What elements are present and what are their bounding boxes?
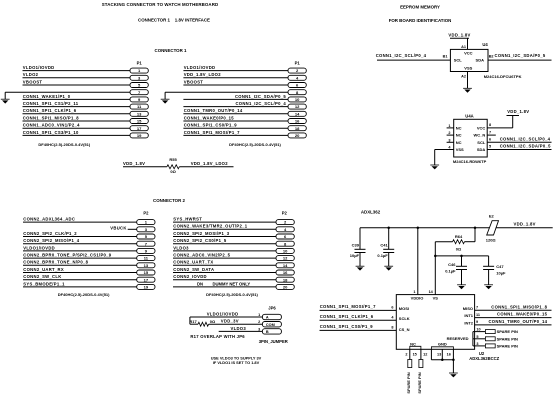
U4A pin 1 (NC) stub: [447, 127, 454, 129]
svg-text:VDD_3V: VDD_3V: [221, 318, 239, 323]
svg-text:CONN2_SPI2_MOSI/P1_3: CONN2_SPI2_MOSI/P1_3: [173, 231, 229, 236]
wire net CONN1_SPI1_CS3/P1_10 to P1 (connector 1, odd pins) pin 19: [23, 134, 131, 136]
capacitor C39: [359, 228, 361, 250]
power bar VDD_1.8V for U4A: [507, 115, 520, 117]
svg-text:SYS_HWRST: SYS_HWRST: [173, 217, 202, 222]
svg-text:2: 2: [258, 320, 260, 324]
svg-text:CONN1_WAKE0/P0_15: CONN1_WAKE0/P0_15: [497, 312, 548, 317]
wire net CONN1_SPI1_CS0/P1_9 to P1 (connector 1, even pins) pin 18: [183, 127, 288, 129]
U4A pin 6 (SCL) wire to net CONN1_I2C_SCL/P0_4: [487, 141, 551, 143]
svg-text:DF40HC(2.5)-20DS-0.4V(51): DF40HC(2.5)-20DS-0.4V(51): [229, 142, 281, 147]
svg-text:R17 OVERLAP WITH JP6: R17 OVERLAP WITH JP6: [190, 334, 245, 339]
svg-text:VLDO3: VLDO3: [173, 245, 189, 250]
resistor R55: [167, 165, 179, 169]
wire net CONN2_UART_RX to P2 (connector 2, odd pins) pin 15: [23, 272, 137, 274]
svg-text:10: 10: [283, 248, 288, 253]
svg-text:VLDO1/IOVDD: VLDO1/IOVDD: [184, 65, 216, 70]
wire net CONN1_SPI1_MISO/P1_8 to P1 (connector 1, odd pins) pin 15: [23, 120, 131, 122]
svg-text:5: 5: [476, 335, 478, 339]
svg-text:CONN2_BPR0_TONE_N/P0_8: CONN2_BPR0_TONE_N/P0_8: [23, 260, 88, 265]
svg-text:0Ω: 0Ω: [170, 169, 176, 174]
connector P2 (connector 2, even pins) pin 16: [276, 270, 294, 275]
svg-text:15: 15: [413, 353, 417, 357]
svg-text:19: 19: [137, 133, 142, 138]
svg-text:13: 13: [437, 353, 441, 357]
svg-text:0Ω: 0Ω: [210, 319, 216, 324]
connector P2 (connector 2, odd pins) pin 3: [137, 227, 155, 232]
ground symbol below C46: [457, 284, 466, 286]
wire net CONN1_ADC0_VIN1/P2_4 to P1 (connector 1, odd pins) pin 17: [23, 127, 131, 129]
connector P1 (connector 1, odd pins) pin 19: [130, 133, 148, 138]
svg-text:CONN2_BPR0_TONE_P/SPI2_CS1/P0_: CONN2_BPR0_TONE_P/SPI2_CS1/P0_9: [23, 253, 111, 258]
capacitor C47: [488, 256, 490, 266]
svg-text:10: 10: [476, 328, 480, 332]
svg-text:CONN1_SPI1_CS0/P1_9: CONN1_SPI1_CS0/P1_9: [184, 123, 238, 128]
svg-text:8: 8: [489, 123, 491, 127]
svg-text:20: 20: [295, 133, 300, 138]
wire net CONN2_BPR0_TONE_N/P0_8 to P2 (connector 2, odd pins) pin 13: [23, 264, 137, 266]
wire net CONN1_I2C_SCL/P0_4 to P1 (connector 1, even pins) pin 12: [183, 106, 288, 108]
svg-text:NC: NC: [456, 133, 462, 138]
svg-text:U4A: U4A: [465, 113, 473, 118]
svg-text:VLDO3: VLDO3: [231, 326, 247, 331]
svg-text:CONN2_ADC0_VIN2/P2_5: CONN2_ADC0_VIN2/P2_5: [173, 253, 230, 258]
svg-text:CONN1_I2C_SCL/P0_4: CONN1_I2C_SCL/P0_4: [376, 53, 427, 58]
connector P1 (connector 1, odd pins) pin 1: [130, 68, 148, 73]
svg-text:VLDO1/IOVDD: VLDO1/IOVDD: [23, 65, 55, 70]
wire ground bus below U2: [431, 359, 453, 361]
wire GND bracket inside U2 (pins 12,13,16): [431, 347, 453, 350]
svg-text:15: 15: [137, 119, 142, 124]
junction at C46: [460, 255, 463, 258]
wire net VLDO1/IOVDD to P2 (connector 2, odd pins) pin 9: [23, 250, 137, 252]
svg-text:C41: C41: [380, 243, 388, 248]
wire U4 pin A2 (VSS) to ground: [467, 72, 469, 89]
wire net VLDO2 to P1 (connector 1, odd pins) pin 3: [23, 77, 131, 79]
U4A pin 8 (VCC) wire to VDD_1.8V: [487, 127, 513, 129]
svg-text:120Ω: 120Ω: [486, 237, 497, 242]
svg-text:P1: P1: [295, 61, 301, 66]
wire net CONN2_WAKE3/TMR2_OUT/P2_1 to P2 (connector 2, even pins) pin 4: [173, 228, 276, 230]
svg-text:CONN1_SPI1_CS1/P2_11: CONN1_SPI1_CS1/P2_11: [23, 101, 79, 106]
svg-text:P2: P2: [282, 211, 288, 216]
svg-text:CONN2_UART_RX: CONN2_UART_RX: [23, 267, 64, 272]
connector P2 (connector 2, odd pins) pin 19: [137, 284, 155, 289]
svg-text:DF40HC(2.5)-20DS-0.4V(51): DF40HC(2.5)-20DS-0.4V(51): [58, 292, 110, 297]
wire net DN (dummy net) to P2 (connector 2, even pins) pin 20: [173, 286, 276, 288]
wire net CONN1_WAKE1/P1_0 to P1 (connector 1, odd pins) pin 9: [23, 98, 131, 100]
svg-text:MOSI: MOSI: [399, 306, 409, 311]
svg-text:SCL: SCL: [477, 140, 486, 145]
svg-text:A1: A1: [461, 45, 466, 49]
ground symbol below U2: [449, 372, 458, 374]
svg-text:CONN1_SPI1_CLK/P1_6: CONN1_SPI1_CLK/P1_6: [320, 314, 374, 319]
svg-text:VDD_1.8V_LDO2: VDD_1.8V_LDO2: [184, 72, 222, 77]
connector P1 (connector 1, odd pins) pin 13: [130, 111, 148, 116]
wire to ground below U2: [452, 360, 454, 373]
connector P1 (connector 1, odd pins) pin 11: [130, 104, 148, 109]
svg-text:CONN1_I2C_SCL/P0_4: CONN1_I2C_SCL/P0_4: [235, 101, 286, 106]
ground symbol below C41: [384, 265, 393, 267]
U4A pin 3 (NC) stub: [447, 141, 454, 143]
spare pin box at U2 pin 2: [408, 360, 412, 368]
svg-text:C47: C47: [496, 264, 504, 269]
svg-text:6: 6: [391, 306, 393, 310]
svg-text:U4: U4: [482, 42, 488, 47]
connector P2 (connector 2, odd pins) pin 5: [137, 234, 155, 239]
svg-text:18: 18: [283, 277, 288, 282]
wire VS rail: [434, 242, 436, 295]
svg-text:ADXL362: ADXL362: [361, 210, 381, 215]
U2 pin 16 stub: [452, 349, 454, 360]
svg-text:CONN1_SPI1_CS0/P1_9: CONN1_SPI1_CS0/P1_9: [320, 324, 374, 329]
wire U2 pin 3 (RESERVED) to spare pin: [473, 345, 486, 347]
svg-text:20: 20: [283, 284, 288, 289]
svg-text:VCC: VCC: [464, 50, 473, 55]
U4A pin 5 (SDA) wire to net CONN1_I2C_SDA/P0_5: [487, 149, 551, 151]
svg-text:GND: GND: [438, 341, 447, 346]
svg-text:B2: B2: [489, 55, 494, 59]
connector P2 (connector 2, even pins) pin 18: [276, 277, 294, 282]
wire U2 pin 9 (INT2) to net CONN1_TMR0_OUT/P0_14: [475, 324, 552, 326]
svg-text:CONN2_SW_DATA: CONN2_SW_DATA: [173, 267, 214, 272]
ground symbol at P1 (connector 1, odd pins) pin 7: [1, 98, 10, 100]
svg-text:VBOOST: VBOOST: [23, 79, 43, 84]
svg-text:SCL: SCL: [454, 58, 463, 63]
power bar VDD_1.8V for U4: [450, 37, 469, 39]
connector P1 (connector 1, even pins) pin 14: [288, 111, 306, 116]
wire net CONN2_UART_TX to P2 (connector 2, even pins) pin 14: [173, 264, 276, 266]
svg-text:12: 12: [295, 104, 300, 109]
U2 pin 13 stub: [441, 349, 443, 360]
wire net CONN2_SW_DATA to P2 (connector 2, even pins) pin 16: [173, 272, 276, 274]
svg-text:CONN1_I2C_SCL/P0_4: CONN1_I2C_SCL/P0_4: [500, 137, 551, 142]
connector P2 (connector 2, even pins) pin 20: [276, 284, 294, 289]
svg-text:3PIN_JUMPER: 3PIN_JUMPER: [259, 339, 288, 344]
svg-text:17: 17: [144, 277, 149, 282]
connector P1 (connector 1, even pins) pin 18: [288, 126, 306, 131]
svg-text:VSS: VSS: [456, 147, 464, 152]
U4A pin 4 (VSS) wire to ground: [435, 149, 454, 151]
svg-text:13: 13: [144, 263, 149, 268]
wire net CONN1_SPI1_MOSI/P1_7 to P1 (connector 1, even pins) pin 20: [183, 134, 288, 136]
U2 pin 2 stub to spare pin: [409, 349, 411, 359]
op U4A eeprom body: [454, 119, 488, 157]
svg-text:VLDO2: VLDO2: [23, 72, 39, 77]
svg-text:SDA: SDA: [477, 147, 486, 152]
wire U2 pin 7 (MISO) to net CONN1_SPI1_MISO/P1_8: [475, 309, 552, 311]
svg-text:A: A: [266, 316, 269, 320]
connector P2 (connector 2, even pins) pin 14: [276, 263, 294, 268]
svg-text:12: 12: [283, 256, 288, 261]
svg-text:JP6: JP6: [268, 306, 276, 311]
svg-text:CONN1_SPI1_CLK/P1_6: CONN1_SPI1_CLK/P1_6: [23, 108, 77, 113]
svg-text:13: 13: [137, 111, 142, 116]
svg-text:VDD_1.8V: VDD_1.8V: [448, 33, 470, 38]
junction VS rail left: [434, 255, 437, 258]
junction at U2 VDDIO riser: [417, 227, 420, 230]
svg-text:CONNECTOR 2: CONNECTOR 2: [153, 198, 185, 203]
wire U2 pin 5 (RESERVED) to spare pin: [473, 338, 486, 340]
wire net CONN1_SPI1_CS1/P2_11 to P1 (connector 1, odd pins) pin 11: [23, 106, 131, 108]
svg-text:9: 9: [476, 320, 478, 324]
wire U2 pin 11 (INT1) to net CONN1_WAKE0/P0_15: [475, 317, 552, 319]
svg-text:NC: NC: [410, 341, 416, 346]
svg-text:SDA: SDA: [476, 58, 485, 63]
connector P2 (connector 2, even pins) pin 12: [276, 256, 294, 261]
wire net CONN1_WAKE0/P0_15 to P1 (connector 1, even pins) pin 16: [183, 120, 288, 122]
svg-text:11: 11: [476, 313, 480, 317]
spare pin box at U2 pin 15: [419, 360, 423, 368]
svg-text:3: 3: [258, 327, 260, 331]
connector P2 (connector 2, odd pins) pin 1: [137, 220, 155, 225]
ground symbol below U4A: [430, 164, 439, 166]
svg-text:VS: VS: [433, 295, 439, 300]
connector P1 (connector 1, odd pins) pin 3: [130, 75, 148, 80]
svg-text:17: 17: [137, 126, 142, 131]
svg-text:SPARE PIN: SPARE PIN: [406, 372, 411, 393]
connector P1 (connector 1, even pins) pin 4: [288, 75, 306, 80]
svg-text:WC_N: WC_N: [474, 133, 486, 138]
svg-text:CONN2_ADXL364_ADC: CONN2_ADXL364_ADC: [23, 217, 75, 222]
connector P2 (connector 2, odd pins) pin 9: [137, 248, 155, 253]
wire NC bracket inside U2 (pins 2,15): [410, 346, 421, 349]
svg-text:10µF: 10µF: [350, 253, 360, 258]
svg-text:VDD_1.8V_LDO2: VDD_1.8V_LDO2: [191, 161, 229, 166]
svg-text:CONN1_SPI1_CS3/P1_10: CONN1_SPI1_CS3/P1_10: [23, 130, 79, 135]
svg-text:7: 7: [476, 306, 478, 310]
svg-text:18: 18: [295, 126, 300, 131]
svg-text:15: 15: [144, 270, 149, 275]
svg-text:12: 12: [423, 353, 427, 357]
svg-text:SPARE PIN: SPARE PIN: [497, 336, 518, 341]
svg-text:VDD_1.8V: VDD_1.8V: [123, 161, 145, 166]
svg-text:E2: E2: [489, 214, 495, 219]
connector P1 (connector 1, even pins) pin 16: [288, 119, 306, 124]
svg-text:STACKING CONNECTOR TO WATCH MO: STACKING CONNECTOR TO WATCH MOTHERBOARD: [102, 2, 219, 7]
svg-text:0.1µF: 0.1µF: [445, 268, 456, 273]
wire net CONN1_I2C_SCL/P0_4 to U4 pin B1: [377, 59, 450, 61]
svg-text:R55: R55: [169, 157, 177, 162]
connector P1 (connector 1, odd pins) pin 7: [130, 90, 148, 95]
junction pin 13 ground: [441, 359, 444, 362]
junction at R64 riser: [474, 227, 477, 230]
svg-text:CONN1_SPI1_MISO/P1_8: CONN1_SPI1_MISO/P1_8: [23, 115, 79, 120]
svg-text:VSS: VSS: [464, 65, 472, 70]
svg-text:CONN1_I2C_SDA/P0_5: CONN1_I2C_SDA/P0_5: [500, 144, 551, 149]
wire net CONN2_SPI2_CS0/P1_5 to P2 (connector 2, even pins) pin 8: [173, 243, 276, 245]
svg-text:CONN1_WAKE0/P0_15: CONN1_WAKE0/P0_15: [184, 115, 235, 120]
wire VDD_1.8V to R55: [123, 166, 167, 168]
connector JP6 pin 1 (A): [262, 314, 281, 319]
ground symbol below U4: [463, 87, 472, 89]
connector P1 (connector 1, even pins) pin 12: [288, 104, 306, 109]
svg-text:CONN2_SW_CLK: CONN2_SW_CLK: [23, 274, 61, 279]
wire net CONN1_SPI1_MOSI/P1_7 to U2 pin 6: [320, 309, 397, 311]
wire net VDD_1.8V_LDO2 to P1 (connector 1, even pins) pin 4: [183, 77, 288, 79]
svg-text:RESERVED: RESERVED: [447, 336, 469, 341]
svg-text:FOR BOARD IDENTIFICATION: FOR BOARD IDENTIFICATION: [389, 18, 452, 23]
wire net CONN2_ADXL364_ADC to P2 (connector 2, odd pins) pin 1: [23, 221, 137, 223]
wire net VLDO1/IOVDD to P1 (connector 1, odd pins) pin 1: [23, 70, 131, 72]
wire net SYS_BMODE/P1_1 to P2 (connector 2, odd pins) pin 19: [23, 286, 137, 288]
svg-text:B: B: [266, 330, 269, 334]
svg-text:C39: C39: [352, 243, 360, 248]
connector P2 (connector 2, even pins) pin 10: [276, 248, 294, 253]
svg-text:CONNECTOR 1: CONNECTOR 1: [155, 48, 187, 53]
svg-text:0.1µF: 0.1µF: [377, 253, 388, 258]
wire net VLDO1/IOVDD to JP6 pin 1: [190, 316, 263, 318]
svg-text:NC: NC: [456, 125, 462, 130]
connector P2 (connector 2, odd pins) pin 15: [137, 270, 155, 275]
svg-text:IF VLDO1 IS SET TO 1.8V: IF VLDO1 IS SET TO 1.8V: [213, 360, 260, 365]
svg-text:DN: DN: [197, 281, 203, 286]
svg-text:VBOOST: VBOOST: [184, 79, 204, 84]
connector P2 (connector 2, even pins) pin 8: [276, 241, 294, 246]
svg-text:R64: R64: [455, 234, 463, 239]
svg-text:VLDO1/IOVDD: VLDO1/IOVDD: [23, 245, 55, 250]
svg-text:P1: P1: [137, 61, 143, 66]
connector P2 (connector 2, even pins) pin 6: [276, 234, 294, 239]
svg-text:CONN1_WAKE1/P1_0: CONN1_WAKE1/P1_0: [23, 94, 71, 99]
U2 pin 15 stub to spare pin: [420, 349, 422, 359]
svg-text:CONN1_SPI1_MOSI/P1_7: CONN1_SPI1_MOSI/P1_7: [184, 130, 240, 135]
svg-text:2: 2: [448, 131, 450, 135]
svg-text:10: 10: [295, 97, 300, 102]
svg-text:CONN2_WAKE3/TMR2_OUT/P2_1: CONN2_WAKE3/TMR2_OUT/P2_1: [173, 224, 247, 229]
svg-text:C46: C46: [448, 262, 456, 267]
op U2 ADXL362 body: [396, 295, 474, 350]
connector P1 (connector 1, odd pins) pin 9: [130, 97, 148, 102]
wire E2 to VDD_1.8V: [496, 227, 553, 229]
svg-text:ADXL362BCCZ: ADXL362BCCZ: [469, 356, 499, 361]
svg-text:1: 1: [448, 124, 450, 128]
svg-text:EEPROM MEMORY: EEPROM MEMORY: [400, 5, 440, 10]
svg-text:11: 11: [144, 256, 149, 261]
connector P1 (connector 1, even pins) pin 20: [288, 133, 306, 138]
svg-text:VLDO1/IOVDD: VLDO1/IOVDD: [207, 311, 239, 316]
svg-text:CONN1_I2C_SDA/P0_5: CONN1_I2C_SDA/P0_5: [495, 53, 546, 58]
svg-text:0Ω: 0Ω: [456, 247, 462, 252]
wire VDDIO power rail: [360, 227, 490, 229]
resistor R64: [435, 241, 452, 243]
connector P1 (connector 1, even pins) pin 8: [288, 90, 306, 95]
wire net CONN2_SPI2_MOSI/P1_3 to P2 (connector 2, even pins) pin 6: [173, 236, 276, 238]
connector JP6 pin 3 (B): [262, 329, 281, 334]
wire U4 pin A1 (VCC) to VDD_1.8V: [467, 38, 469, 49]
connector P1 (connector 1, odd pins) pin 5: [130, 83, 148, 88]
capacitor C46: [461, 256, 463, 266]
ground symbol below C47: [484, 284, 493, 286]
ground symbol below C39: [356, 265, 365, 267]
svg-text:3: 3: [476, 342, 478, 346]
spare pin box at U2 pin 5: [485, 337, 495, 341]
wire net CONN1_SPI1_CLK/P1_6 to U2 pin 4: [320, 319, 397, 321]
wire U4 pin B2 (SDA) to net CONN1_I2C_SDA/P0_5: [488, 59, 552, 61]
wire net VBUCK to P2 (connector 2, odd pins) pin 3: [128, 228, 137, 230]
connector P2 (connector 2, even pins) pin 4: [276, 227, 294, 232]
connector P2 (connector 2, odd pins) pin 17: [137, 277, 155, 282]
wire net CONN2_SW_CLK to P2 (connector 2, odd pins) pin 17: [23, 279, 137, 281]
svg-text:A2: A2: [461, 75, 466, 79]
svg-text:19: 19: [144, 284, 149, 289]
connector P2 (connector 2, odd pins) pin 11: [137, 256, 155, 261]
wire U2 pin 10 (RESERVED) to spare pin: [473, 331, 486, 333]
svg-text:14: 14: [283, 263, 288, 268]
wire net VBOOST to P1 (connector 1, even pins) pin 6: [183, 84, 288, 86]
wire net CONN1_TMR0_OUT/P0_14 to P1 (connector 1, even pins) pin 14: [183, 113, 288, 115]
svg-text:7: 7: [489, 130, 491, 134]
svg-text:CONN2_SPI2_CLK/P1_2: CONN2_SPI2_CLK/P1_2: [23, 231, 77, 236]
U2 pin 12 stub: [430, 349, 432, 360]
svg-text:CONN2_IOVDD: CONN2_IOVDD: [173, 274, 207, 279]
svg-text:SCLK: SCLK: [399, 316, 410, 321]
spare pin box at U2 pin 3: [485, 344, 495, 348]
wire net VBOOST to P1 (connector 1, odd pins) pin 5: [23, 84, 131, 86]
op U4 eeprom body: [450, 49, 488, 71]
connector P2 (connector 2, odd pins) pin 7: [137, 241, 155, 246]
wire net CONN2_IOVDD to P2 (connector 2, even pins) pin 18: [173, 279, 276, 281]
svg-text:CONNECTOR 1 1.8V INTERFACE: CONNECTOR 1 1.8V INTERFACE: [138, 18, 210, 23]
svg-text:VDD_1.8V: VDD_1.8V: [514, 222, 536, 227]
connector P2 (connector 2, odd pins) pin 13: [137, 263, 155, 268]
svg-text:B1: B1: [443, 55, 448, 59]
connector JP6 pin 2 (COM): [262, 322, 281, 327]
svg-text:MISO: MISO: [463, 306, 473, 311]
connector P2 (connector 2, even pins) pin 2: [276, 220, 294, 225]
svg-text:VDD_1.8V: VDD_1.8V: [507, 109, 529, 114]
svg-text:VBUCK: VBUCK: [110, 225, 126, 230]
svg-text:SYS_BMODE/P1_1: SYS_BMODE/P1_1: [23, 281, 65, 286]
svg-text:SPARE PIN: SPARE PIN: [417, 372, 422, 393]
svg-text:CONN1_TMR0_OUT/P0_14: CONN1_TMR0_OUT/P0_14: [488, 319, 547, 324]
wire net VLDO3 to P2 (connector 2, even pins) pin 10: [173, 250, 276, 252]
svg-text:CONN1_TMR0_OUT/P0_14: CONN1_TMR0_OUT/P0_14: [184, 108, 243, 113]
svg-text:DF40HC(2.5)-20DS-0.4V(51): DF40HC(2.5)-20DS-0.4V(51): [206, 292, 258, 297]
svg-text:8: 8: [391, 326, 393, 330]
wire VLDO1 net down to R17: [189, 317, 191, 324]
svg-text:M24C16-DFCU6TPK: M24C16-DFCU6TPK: [484, 74, 522, 79]
svg-text:M24C16-RDW6TP: M24C16-RDW6TP: [453, 159, 487, 164]
svg-text:CONN1_SPI1_MOSI/P1_7: CONN1_SPI1_MOSI/P1_7: [320, 304, 376, 309]
svg-text:CONN2_SPI2_CS0/P1_5: CONN2_SPI2_CS0/P1_5: [173, 238, 227, 243]
svg-text:14: 14: [295, 111, 300, 116]
wire RESERVED bracket inside U2: [472, 332, 474, 346]
wire net CONN1_SPI1_CS0/P1_9 to U2 pin 8: [320, 329, 397, 331]
wire net VLDO1/IOVDD to P1 (connector 1, even pins) pin 2: [183, 70, 288, 72]
svg-text:SPARE PIN: SPARE PIN: [497, 343, 518, 348]
svg-text:3: 3: [448, 138, 450, 142]
svg-text:16: 16: [295, 119, 300, 124]
U4A pin 7 (WC_N) stub: [487, 134, 496, 136]
ferrite bead E2: [487, 221, 499, 235]
svg-text:CONN1_SPI1_MISO/P1_8: CONN1_SPI1_MISO/P1_8: [491, 304, 547, 309]
wire U2 VDDIO pin 1 riser: [417, 228, 419, 295]
wire net VLDO3 to JP6 pin 3: [219, 330, 263, 332]
spare pin box at U2 pin 10: [485, 330, 495, 334]
svg-text:INT1: INT1: [464, 313, 473, 318]
wire net SYS_HWRST to P2 (connector 2, even pins) pin 2: [173, 221, 276, 223]
wire R55 to VDD_1.8V_LDO2: [179, 166, 233, 168]
svg-text:16: 16: [447, 353, 451, 357]
svg-text:CS_N: CS_N: [399, 327, 410, 332]
svg-text:10µF: 10µF: [496, 270, 506, 275]
svg-text:16: 16: [283, 270, 288, 275]
svg-text:DUMMY NET ONLY: DUMMY NET ONLY: [213, 281, 251, 286]
wire ground to P1 (connector 1, even pins) pin 8: [165, 91, 288, 93]
wire net CONN1_SPI1_CLK/P1_6 to P1 (connector 1, odd pins) pin 13: [23, 113, 131, 115]
svg-text:CONN2_SPI2_MISO/P1_4: CONN2_SPI2_MISO/P1_4: [23, 238, 79, 243]
